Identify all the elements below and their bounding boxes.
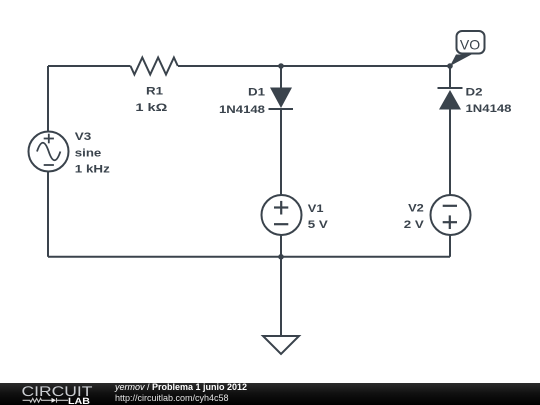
svg-text:1N4148: 1N4148 [219,104,265,116]
svg-text:sine: sine [75,148,102,160]
svg-text:1 kΩ: 1 kΩ [135,102,167,114]
svg-text:1 kHz: 1 kHz [75,164,111,176]
svg-text:V1: V1 [308,203,324,215]
svg-text:V2: V2 [408,203,424,215]
svg-text:V3: V3 [75,131,92,143]
svg-text:LAB: LAB [68,396,91,405]
svg-text:2 V: 2 V [404,219,425,231]
svg-text:VO: VO [460,36,480,52]
svg-text:R1: R1 [146,86,163,98]
svg-text:D1: D1 [248,87,265,99]
svg-text:5 V: 5 V [308,219,329,231]
svg-text:D2: D2 [466,87,483,99]
svg-text:1N4148: 1N4148 [466,103,512,115]
